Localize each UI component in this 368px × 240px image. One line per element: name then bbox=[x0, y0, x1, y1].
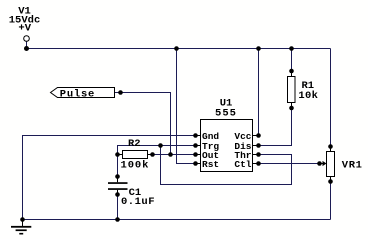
node pin dot Vcc bbox=[256, 133, 261, 138]
node V1 labels bbox=[9, 6, 41, 35]
junction Vcc drop on rail bbox=[256, 46, 261, 51]
node VR1 wiper dot bbox=[317, 161, 322, 166]
node pin dot Out bbox=[193, 152, 198, 157]
op-amp U1 555 IC body bbox=[201, 97, 253, 171]
node pin dot Ctl bbox=[256, 161, 261, 166]
wire Trg to Thr link bbox=[161, 146, 292, 185]
wire C1 bottom to ground rail bbox=[117, 195, 119, 220]
junction Pulse terminal bbox=[118, 90, 123, 95]
node C1 bottom dot bbox=[115, 192, 120, 197]
capacitor C1 bbox=[108, 177, 155, 209]
junction R1 top on rail bbox=[289, 46, 294, 51]
potentiometer VR1 bbox=[320, 147, 363, 182]
pin Dis stub bbox=[253, 145, 259, 147]
pin Gnd stub bbox=[196, 135, 201, 137]
node pin dot Dis bbox=[256, 143, 261, 148]
node R1 bottom dot bbox=[289, 106, 294, 111]
wire Pulse to Out row bbox=[115, 93, 171, 155]
junction C1 on ground rail bbox=[115, 217, 120, 222]
wire RC junction up to Trg pin bbox=[118, 146, 196, 155]
svg-text:10k: 10k bbox=[298, 90, 318, 102]
svg-text:100k: 100k bbox=[121, 160, 150, 172]
wire rail drop to VR1 top bbox=[330, 49, 332, 147]
junction Rst drop on rail bbox=[174, 46, 179, 51]
svg-text:Rst: Rst bbox=[202, 159, 219, 170]
node VR1 bottom dot bbox=[328, 179, 333, 184]
junction Pulse-Out bbox=[168, 152, 173, 157]
svg-text:Pulse: Pulse bbox=[60, 89, 95, 101]
pin Out stub bbox=[196, 154, 201, 156]
pin Thr stub bbox=[253, 154, 259, 156]
wire Out row R2 to Out pin bbox=[153, 154, 196, 156]
wire Rst to rail bbox=[177, 49, 196, 164]
node pin dot Rst bbox=[193, 161, 198, 166]
wire R1 bottom to Dis pin bbox=[259, 108, 292, 146]
node R1 top dot bbox=[289, 69, 294, 74]
wire Vcc to rail bbox=[258, 49, 260, 136]
node R2 left dot bbox=[115, 152, 120, 157]
wire ground bottom rail bbox=[23, 219, 331, 221]
node pin dot Thr bbox=[256, 152, 261, 157]
node R2 right dot bbox=[150, 152, 155, 157]
resistor R2 bbox=[118, 138, 153, 172]
svg-text:555: 555 bbox=[215, 107, 237, 119]
node C1 top dot bbox=[115, 174, 120, 179]
wire V1 stub bbox=[26, 42, 28, 49]
junction V1 on rail bbox=[24, 46, 29, 51]
node pin dot Trg bbox=[193, 143, 198, 148]
svg-text:VR1: VR1 bbox=[342, 159, 363, 171]
ground bbox=[11, 220, 31, 235]
connector Pulse flag bbox=[51, 88, 115, 101]
junction Trg link bbox=[158, 143, 163, 148]
wire +V top rail bbox=[27, 48, 331, 50]
pin Vcc stub bbox=[253, 135, 259, 137]
node pin dot Gnd bbox=[193, 133, 198, 138]
junction ground rail bbox=[20, 217, 25, 222]
voltage source V1 +V symbol bbox=[24, 36, 30, 42]
pin Trg stub bbox=[196, 145, 201, 147]
svg-text:0.1uF: 0.1uF bbox=[121, 196, 155, 208]
svg-text:Ctl: Ctl bbox=[234, 159, 251, 170]
resistor R1 bbox=[288, 71, 319, 108]
wire VR1 bottom to ground rail bbox=[330, 182, 332, 220]
svg-text:R2: R2 bbox=[128, 138, 141, 150]
node VR1 top dot bbox=[328, 144, 333, 149]
pin Ctl stub bbox=[253, 163, 259, 165]
wire R1 top lead to rail bbox=[291, 49, 293, 72]
wire RC junction down to C1 bbox=[117, 155, 119, 177]
svg-text:+V: +V bbox=[18, 23, 31, 35]
wire ground rail up to Gnd pin bbox=[23, 136, 196, 220]
wire Ctl to VR1 wiper bbox=[259, 163, 320, 165]
pin Rst stub bbox=[196, 163, 201, 165]
